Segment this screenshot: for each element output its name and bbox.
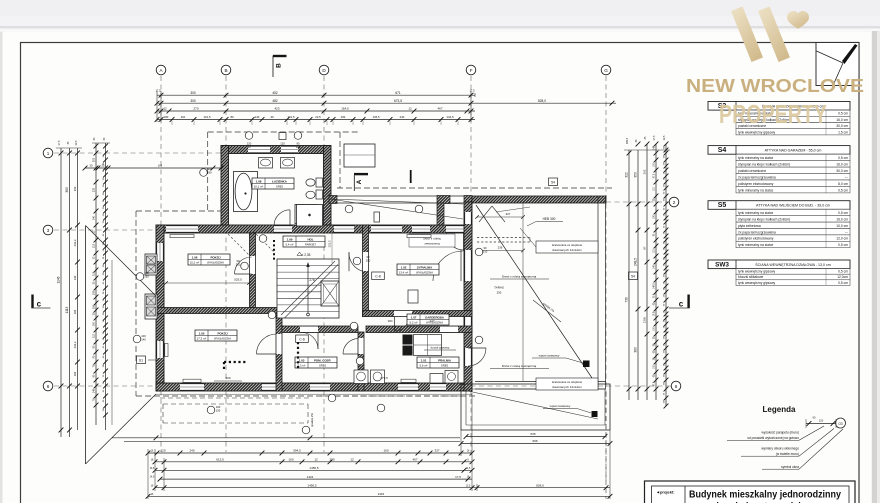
svg-text:80: 80 xyxy=(209,171,212,175)
dimension 525.5 in room xyxy=(164,278,251,285)
svg-text:101,5: 101,5 xyxy=(204,115,211,119)
label TARAS xyxy=(494,286,504,295)
gas boiler black squares xyxy=(403,335,442,356)
svg-text:0,5 cm: 0,5 cm xyxy=(838,156,848,160)
boxed label C-8 xyxy=(372,272,385,280)
boxed label C-6 xyxy=(296,335,309,343)
svg-text:236: 236 xyxy=(498,245,503,249)
svg-text:467: 467 xyxy=(412,458,417,462)
left dimension chain 2 xyxy=(65,148,72,437)
right dimension chain 2 xyxy=(634,142,641,400)
svg-text:ŚCIANA WEWNĘTRZNA DZIAŁOWA - 1: ŚCIANA WEWNĘTRZNA DZIAŁOWA - 13,0 cm xyxy=(755,262,831,267)
svg-text:ATTYKA NAD WEJŚCIEM DO BUD. -: ATTYKA NAD WEJŚCIEM DO BUD. - 39,0 cm xyxy=(756,203,830,208)
axis line F (dashed vertical) xyxy=(470,76,472,455)
svg-text:12,5: 12,5 xyxy=(466,485,471,487)
laundry fixture pralnia xyxy=(430,371,458,384)
top dimension row 4 xyxy=(155,115,475,122)
exterior wall - bathroom block left xyxy=(221,146,229,228)
svg-text:0,5 cm: 0,5 cm xyxy=(838,211,848,215)
exterior wall - bathroom block top xyxy=(221,146,329,154)
svg-text:12: 12 xyxy=(314,458,318,462)
svg-text:353: 353 xyxy=(73,186,77,191)
svg-text:100: 100 xyxy=(93,321,96,326)
axis line D (dashed vertical) xyxy=(323,76,325,452)
svg-text:90: 90 xyxy=(484,246,487,250)
svg-text:240: 240 xyxy=(400,115,405,119)
room label 1.03 pom gosp xyxy=(295,357,337,368)
svg-text:5,4 m²: 5,4 m² xyxy=(286,243,294,247)
marker wing 2 xyxy=(415,205,423,213)
exterior wall - main top xyxy=(156,225,472,233)
bottom rows left tick cluster labels xyxy=(148,449,164,499)
svg-text:bloczki silikatowe: bloczki silikatowe xyxy=(738,275,763,279)
label drzwi z roleta 2 xyxy=(490,364,549,369)
stairs xyxy=(277,259,339,318)
svg-text:12,0cm: 12,0cm xyxy=(837,275,848,279)
table S3 sciana zewnetrzna xyxy=(708,102,850,135)
svg-text:płyta żelbetowa: płyta żelbetowa xyxy=(738,224,761,228)
svg-text:ATTYKA NAD GARAŻEM - 55,0 cm: ATTYKA NAD GARAŻEM - 55,0 cm xyxy=(765,148,822,153)
left inner dimension line xyxy=(83,164,224,171)
svg-text:148: 148 xyxy=(93,388,96,393)
watermark heart xyxy=(787,11,809,29)
washbasin 2 xyxy=(281,158,295,169)
interior wall corridor/1.05 xyxy=(276,314,282,392)
svg-text:101,5: 101,5 xyxy=(288,115,295,119)
svg-text:452: 452 xyxy=(272,91,278,95)
svg-text:22,5: 22,5 xyxy=(315,115,321,119)
axis line G (dashed vertical) xyxy=(605,76,607,482)
title block xyxy=(645,481,856,503)
porch dimension 236 xyxy=(475,245,525,252)
beam mark above wing xyxy=(410,170,412,183)
svg-text:279,5: 279,5 xyxy=(380,376,388,380)
axis circle 6 left xyxy=(43,381,53,391)
right dimension chain 5 xyxy=(664,142,669,409)
label wpust tarasowy 1 xyxy=(532,354,583,364)
wing strip ceiling diagonals xyxy=(330,199,463,219)
svg-text:18,5: 18,5 xyxy=(654,311,656,316)
room label 1.06 pokoj xyxy=(188,254,230,265)
room label 1.08 lazienka xyxy=(252,178,294,189)
svg-text:8,0 cm: 8,0 cm xyxy=(838,182,848,186)
small desk bedroom xyxy=(408,290,418,303)
svg-text:12,0 cm: 12,0 cm xyxy=(836,237,848,241)
svg-text:tynk mineralny na siatce: tynk mineralny na siatce xyxy=(738,156,774,160)
svg-text:0,5 cm: 0,5 cm xyxy=(838,281,848,285)
svg-text:180: 180 xyxy=(164,115,169,119)
svg-text:styropian na kleju i kołkach (: styropian na kleju i kołkach (2x8cm) xyxy=(738,218,790,222)
washbasin 1 xyxy=(259,158,273,169)
axis circle 1 left xyxy=(43,148,53,158)
hol dashed diagonal beams xyxy=(228,231,275,255)
svg-text:525,5: 525,5 xyxy=(234,278,242,282)
axis circle 2 right xyxy=(669,197,679,207)
legend entry 3 symbol okna xyxy=(762,429,843,469)
door arc room 1.05 xyxy=(257,334,277,354)
top dimension row 1 xyxy=(155,89,475,98)
svg-text:613,5: 613,5 xyxy=(216,458,224,462)
svg-text:wysokość parapetu (muru): wysokość parapetu (muru) xyxy=(761,431,799,435)
svg-text:189,5: 189,5 xyxy=(626,137,629,144)
watermark W logo ribbon 2 xyxy=(758,7,790,63)
marker left wall 1.05 xyxy=(133,334,146,343)
svg-text:1306: 1306 xyxy=(643,316,647,323)
svg-text:160: 160 xyxy=(288,458,293,462)
svg-text:120: 120 xyxy=(819,419,824,423)
svg-text:A: A xyxy=(356,179,363,184)
entry vestibule wall xyxy=(437,203,444,225)
lower terrace dimension 635 xyxy=(464,432,608,439)
axis line 1 (dashed horizontal) xyxy=(54,152,334,154)
svg-text:120: 120 xyxy=(296,145,301,149)
svg-text:2115: 2115 xyxy=(378,492,385,496)
shower / washing machine box xyxy=(297,205,323,227)
door arc terrace door 2 xyxy=(468,348,486,366)
svg-text:120: 120 xyxy=(160,449,165,453)
svg-text:12: 12 xyxy=(350,458,354,462)
svg-text:0,5 cm: 0,5 cm xyxy=(838,112,848,116)
svg-text:240: 240 xyxy=(189,449,194,453)
label kociol gazowy xyxy=(424,346,456,351)
left chains top labels xyxy=(56,137,110,148)
section marker A right of bathroom xyxy=(354,173,368,191)
svg-text:220: 220 xyxy=(247,142,252,146)
svg-text:0,5 cm: 0,5 cm xyxy=(838,270,848,274)
svg-text:210: 210 xyxy=(236,263,241,267)
svg-text:◄projekt:: ◄projekt: xyxy=(656,490,675,495)
section marker C right xyxy=(669,295,690,309)
svg-text:S5: S5 xyxy=(718,202,727,209)
svg-text:243,3: 243,3 xyxy=(73,341,77,348)
svg-text:polistyren ekstrudowany: polistyren ekstrudowany xyxy=(738,237,774,241)
svg-text:1456,5: 1456,5 xyxy=(307,483,317,487)
svg-text:1.07: 1.07 xyxy=(411,315,417,319)
bottom dimension row 3 xyxy=(153,466,475,473)
svg-text:drewnianych 14x14cm: drewnianych 14x14cm xyxy=(552,385,582,389)
svg-text:696: 696 xyxy=(532,439,537,443)
svg-text:337: 337 xyxy=(434,449,439,453)
marker below wall 1 xyxy=(207,405,221,414)
label HEB 300 xyxy=(527,217,563,226)
svg-text:100: 100 xyxy=(93,304,96,309)
svg-text:C-6: C-6 xyxy=(299,338,305,342)
right dimension chain 4 xyxy=(654,142,659,400)
lower terrace drain xyxy=(543,404,598,417)
svg-text:14,5: 14,5 xyxy=(466,468,471,470)
svg-text:tynk wewnętrzny gipsowy: tynk wewnętrzny gipsowy xyxy=(738,130,776,134)
window marker left wall 1 xyxy=(136,271,149,280)
svg-text:30,5: 30,5 xyxy=(654,293,656,298)
door arc bathroom xyxy=(274,210,290,226)
axis line 3 (dashed horizontal) xyxy=(54,229,160,231)
svg-text:c: c xyxy=(37,299,42,308)
svg-text:230: 230 xyxy=(329,458,334,462)
stairs level label +2.35 xyxy=(297,252,311,257)
svg-text:300: 300 xyxy=(190,99,196,103)
svg-text:247: 247 xyxy=(429,319,434,323)
label kratownica 2 xyxy=(536,378,598,390)
section marker C left xyxy=(31,295,50,309)
table S4 attyka nad garazem xyxy=(708,146,850,193)
patio slope label xyxy=(310,413,314,427)
dotted partition pom.gosp xyxy=(297,342,299,370)
svg-text:Legenda: Legenda xyxy=(763,405,796,414)
left dimension chain 4 xyxy=(93,143,99,425)
svg-text:O3: O3 xyxy=(838,422,842,426)
svg-text:182: 182 xyxy=(341,115,346,119)
exterior wall - right (house-terrace) xyxy=(464,202,472,391)
label kratownica 1 xyxy=(520,228,598,253)
washer dryer squares pom.gosp xyxy=(354,370,385,384)
watermark text NEW WROCLOVE xyxy=(686,76,864,96)
axis line 2 (dashed horizontal) xyxy=(470,201,669,203)
boxed label S1 xyxy=(137,356,157,364)
marker pom gosp xyxy=(356,357,364,365)
svg-text:160: 160 xyxy=(383,449,388,453)
stairs width label 278 xyxy=(309,278,315,282)
room label 1.09 hol xyxy=(283,236,325,247)
svg-text:GRES: GRES xyxy=(276,185,284,189)
window marker O over bathroom 2 xyxy=(294,132,302,149)
svg-text:1456,5: 1456,5 xyxy=(309,466,319,470)
radiators under windows xyxy=(165,235,431,383)
svg-text:1.08: 1.08 xyxy=(256,179,262,183)
svg-text:200: 200 xyxy=(366,259,371,263)
door arc terrace door 1 xyxy=(433,250,463,281)
svg-text:12: 12 xyxy=(163,107,167,111)
svg-text:TARAS: TARAS xyxy=(494,286,504,290)
right chains top labels xyxy=(624,135,670,150)
svg-text:90: 90 xyxy=(297,142,300,146)
svg-text:363: 363 xyxy=(65,187,69,193)
svg-text:363: 363 xyxy=(634,347,638,353)
dimension 247 bedroom xyxy=(429,319,434,323)
svg-text:248,5: 248,5 xyxy=(634,258,638,266)
roof overhang dashed outline xyxy=(136,132,612,396)
svg-text:163: 163 xyxy=(158,164,163,168)
svg-text:120: 120 xyxy=(280,142,285,146)
svg-text:112: 112 xyxy=(93,333,96,338)
svg-text:131,5: 131,5 xyxy=(328,240,332,247)
svg-text:1113: 1113 xyxy=(65,306,69,313)
svg-text:PRALNIA: PRALNIA xyxy=(438,358,452,362)
svg-text:polistyren ekstrudowany: polistyren ekstrudowany xyxy=(738,182,774,186)
svg-text:210: 210 xyxy=(483,250,488,254)
svg-text:2: 2 xyxy=(673,200,676,205)
svg-text:30,0 cm: 30,0 cm xyxy=(836,124,848,128)
svg-text:GRES: GRES xyxy=(441,364,449,368)
svg-text:---: --- xyxy=(845,230,848,234)
bottom dimension row 6 xyxy=(146,492,613,499)
svg-text:113: 113 xyxy=(93,243,96,248)
svg-text:10,0 cm: 10,0 cm xyxy=(836,224,848,228)
svg-text:wymiary otworu okiennego: wymiary otworu okiennego xyxy=(761,447,799,451)
bottom patio dashed lines xyxy=(160,396,460,423)
lower terrace dimension 696 xyxy=(459,439,613,446)
table SW3 sciana wewnetrzna xyxy=(708,260,850,285)
svg-text:87,5: 87,5 xyxy=(654,173,656,178)
svg-text:673,5: 673,5 xyxy=(394,99,402,103)
boxed label 54 right xyxy=(629,272,638,280)
terrace top dimension 327 xyxy=(475,212,525,219)
terrace middle support line xyxy=(522,203,524,381)
svg-text:353: 353 xyxy=(93,157,96,162)
bottom dimension row 5 xyxy=(153,483,610,490)
svg-text:tynk mineralny na siatce: tynk mineralny na siatce xyxy=(738,243,774,247)
section marker B top xyxy=(273,55,287,77)
door arc room 1.06 xyxy=(235,257,252,274)
svg-text:symbol okna: symbol okna xyxy=(781,465,799,469)
window marker O over bathroom 1 xyxy=(245,132,253,149)
svg-text:140: 140 xyxy=(73,275,77,280)
axis circle A top xyxy=(156,65,166,75)
kitchen stove boxes outside left wall xyxy=(145,254,157,319)
svg-text:1.02: 1.02 xyxy=(401,265,407,269)
svg-text:17,3 m²: 17,3 m² xyxy=(197,337,207,341)
svg-text:148,5: 148,5 xyxy=(654,282,656,288)
exterior wall - left xyxy=(156,225,164,391)
dimension 184 bedroom xyxy=(387,319,392,323)
marker below wall 2 xyxy=(302,426,310,434)
label drzwi z roleta 1 xyxy=(490,275,549,280)
svg-text:100: 100 xyxy=(216,405,221,409)
dimension 600 in room xyxy=(214,376,242,381)
bottom left corner axis tick xyxy=(154,435,313,440)
marker terrace right door 2 xyxy=(475,336,483,344)
svg-text:wpust tarasowy: wpust tarasowy xyxy=(550,404,571,408)
svg-text:12,5: 12,5 xyxy=(75,140,78,145)
exterior wall - right wing top edge (porch) xyxy=(329,196,472,204)
svg-text:POM. GOSP.: POM. GOSP. xyxy=(314,358,331,362)
svg-text:c: c xyxy=(679,299,684,308)
table S5 attyka nad wejsciem xyxy=(708,201,850,248)
svg-text:108: 108 xyxy=(93,290,96,295)
svg-text:14,5: 14,5 xyxy=(150,477,155,479)
interior wall garderoba/pralnia strip xyxy=(366,326,472,333)
axis circle 6 right xyxy=(671,381,681,391)
svg-text:278: 278 xyxy=(309,278,315,282)
terrace truss braces xyxy=(479,206,530,222)
svg-text:styropian na kleju i kołkach (: styropian na kleju i kołkach (2x8cm) xyxy=(738,163,790,167)
svg-text:SW3: SW3 xyxy=(715,261,729,268)
svg-text:327: 327 xyxy=(506,212,511,216)
axis circle B top xyxy=(221,65,231,75)
interior wall pom.gosp/pralnia xyxy=(358,332,364,391)
plinth line below bottom wall xyxy=(156,393,472,395)
svg-text:GRES: GRES xyxy=(319,364,327,368)
left dimension chain 3 xyxy=(73,148,80,430)
terrace bottom edge xyxy=(475,382,606,390)
svg-text:spadek 2%: spadek 2% xyxy=(310,413,314,427)
svg-text:6: 6 xyxy=(47,384,50,389)
bottom-left wedge outline xyxy=(86,226,461,465)
svg-text:17,5: 17,5 xyxy=(155,89,161,93)
svg-text:333: 333 xyxy=(93,187,96,192)
dimension 279.5 bottom xyxy=(380,376,388,380)
svg-text:16,0 cm: 16,0 cm xyxy=(836,218,848,222)
legend entry 1 wysokosc parapetu xyxy=(727,426,824,440)
top dimension row 2 xyxy=(155,99,616,106)
axis line 6 (dashed horizontal) xyxy=(54,385,671,387)
svg-text:HEB 300: HEB 300 xyxy=(543,217,556,221)
svg-text:od posadzki wykończonej na: od posadzki wykończonej na gotowo xyxy=(747,436,799,440)
svg-text:16,5: 16,5 xyxy=(150,468,155,470)
svg-text:Drzwi z roletą zewnętrzną: Drzwi z roletą zewnętrzną xyxy=(502,275,537,279)
svg-text:zewnętrzną: zewnętrzną xyxy=(424,242,440,246)
axis line A (dashed vertical) xyxy=(160,76,162,452)
svg-text:1424: 1424 xyxy=(307,475,314,479)
svg-text:243,3: 243,3 xyxy=(73,239,77,246)
svg-text:0,5 cm: 0,5 cm xyxy=(838,243,848,247)
svg-text:87: 87 xyxy=(643,246,647,250)
svg-text:Budynek mieszkalny jednorodz: Budynek mieszkalny jednorodzinny xyxy=(689,489,841,500)
svg-text:828,0: 828,0 xyxy=(538,99,546,103)
svg-text:671: 671 xyxy=(395,91,401,95)
svg-text:1.09: 1.09 xyxy=(287,237,293,241)
marker terrace right door xyxy=(475,246,488,256)
svg-text:80: 80 xyxy=(230,115,234,119)
top dimension row 3 xyxy=(155,107,475,114)
legend title xyxy=(763,405,796,414)
marker wing rect xyxy=(374,212,380,222)
dimension 131.5 hol xyxy=(328,225,333,263)
window marker left of bathroom xyxy=(200,167,213,176)
svg-text:17,5: 17,5 xyxy=(58,140,61,145)
svg-text:kocioł gazowy: kocioł gazowy xyxy=(431,346,450,350)
svg-text:kratownica ze słupków: kratownica ze słupków xyxy=(552,243,583,247)
marker 1.06 door xyxy=(236,259,249,270)
dotted partition 1.05 xyxy=(224,362,248,371)
svg-text:Drzwi z roletą zewnętrzną: Drzwi z roletą zewnętrzną xyxy=(502,364,537,368)
svg-text:184: 184 xyxy=(73,309,77,314)
interior wall hall/room 1.06 xyxy=(250,233,256,308)
svg-text:140: 140 xyxy=(255,115,260,119)
marker wing 1 xyxy=(345,205,353,213)
right dimension chain 1 xyxy=(625,150,632,400)
svg-text:594,5: 594,5 xyxy=(293,449,301,453)
svg-text:10,1 m²: 10,1 m² xyxy=(254,185,264,189)
marker below wall 4 xyxy=(377,404,385,412)
svg-text:WYKŁADZINA: WYKŁADZINA xyxy=(207,261,224,265)
svg-text:NEW WROCLOVE: NEW WROCLOVE xyxy=(686,76,864,96)
svg-text:6: 6 xyxy=(675,384,678,389)
porch gutter dashed band xyxy=(477,238,530,243)
svg-text:1.03: 1.03 xyxy=(299,358,305,362)
dotted line hol xyxy=(273,240,275,262)
svg-text:353: 353 xyxy=(634,172,638,178)
svg-text:150: 150 xyxy=(216,409,221,413)
svg-text:2x papa termozgrzewalna: 2x papa termozgrzewalna xyxy=(738,175,776,179)
svg-text:423: 423 xyxy=(274,107,279,111)
svg-text:60: 60 xyxy=(367,255,370,259)
svg-text:142,5: 142,5 xyxy=(447,115,454,119)
axis circle 3 left xyxy=(43,225,53,235)
svg-text:40: 40 xyxy=(270,115,274,119)
left page edge shading xyxy=(0,32,3,503)
svg-text:S4: S4 xyxy=(718,147,727,154)
svg-text:90: 90 xyxy=(237,259,240,263)
door arc garderoba xyxy=(395,317,410,332)
marker below wall 3 xyxy=(328,394,336,402)
svg-text:113: 113 xyxy=(93,271,96,276)
left dimension chain 1 (outer) xyxy=(57,148,64,437)
svg-text:1,5 cm: 1,5 cm xyxy=(838,130,848,134)
boxed label 54 terrace xyxy=(549,178,558,186)
svg-text:C-8: C-8 xyxy=(375,275,381,279)
svg-text:F: F xyxy=(470,68,473,73)
terrace right edge xyxy=(598,196,606,389)
